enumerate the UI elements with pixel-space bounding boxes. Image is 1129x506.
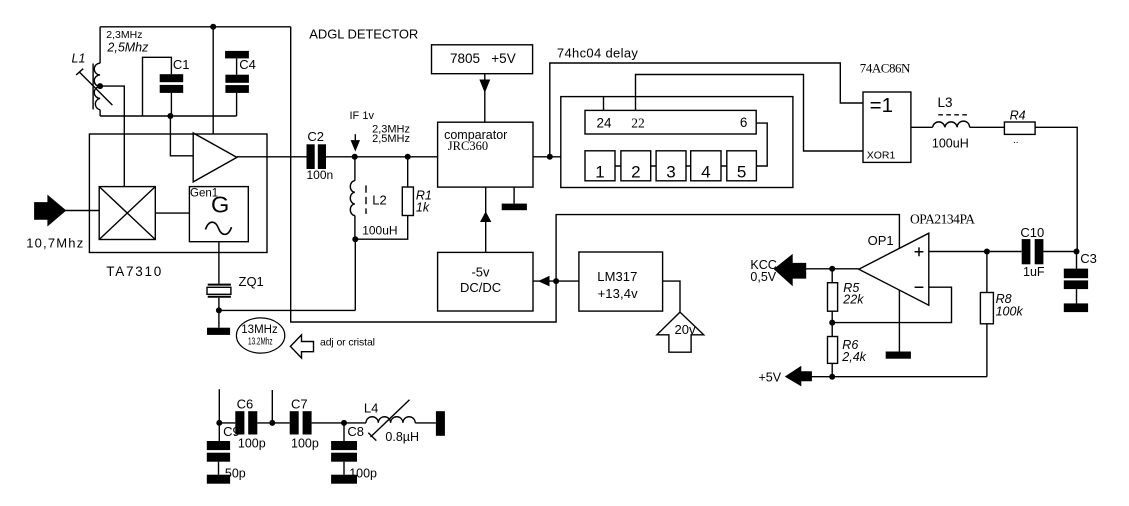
delay long box 24 22 6 (585, 110, 756, 134)
terminal bar output (436, 411, 445, 436)
arrow 20v supply (657, 312, 704, 352)
capacitor C3 (1076, 252, 1078, 269)
node ZQ1 bottom (216, 307, 222, 313)
node IF (352, 154, 358, 160)
capacitor C6 (235, 411, 244, 434)
svg-text:0,5V: 0,5V (750, 270, 776, 284)
svg-text:1: 1 (595, 163, 604, 182)
node C9 (216, 420, 222, 426)
svg-text:OPA2134PA: OPA2134PA (910, 212, 975, 227)
svg-text:JRC360: JRC360 (448, 139, 488, 153)
wire node to node (355, 156, 408, 158)
wire +5V rail (811, 376, 987, 378)
svg-text:C6: C6 (237, 397, 254, 412)
regulator 7805 box (432, 45, 533, 74)
svg-text:2,4k: 2,4k (841, 350, 866, 364)
svg-text:6: 6 (740, 115, 748, 130)
resistor R6 (831, 323, 833, 337)
svg-text:C4: C4 (239, 57, 256, 72)
node L1 tap (97, 83, 103, 89)
svg-text:L3: L3 (938, 95, 953, 110)
svg-text:7805: 7805 (450, 51, 480, 66)
svg-text:R4: R4 (1010, 108, 1026, 122)
ground at C3 (1064, 303, 1088, 312)
svg-text:100uH: 100uH (932, 137, 969, 151)
IC U1 TA7310 box (89, 134, 267, 253)
inductor L3 (933, 121, 970, 127)
arrow +5V supply (786, 367, 811, 385)
delay stage box 4 (691, 151, 721, 181)
wire LM317 to DC/DC with arrow (533, 280, 579, 282)
inductor L4 (366, 417, 415, 423)
wire comparator output (533, 156, 561, 158)
wire stage5 to pin6 (756, 123, 767, 166)
wire comparator to -5v supply with arrow (485, 187, 487, 252)
capacitor C2 (307, 144, 315, 169)
node plus input (984, 249, 990, 255)
arrow adj pointer (290, 335, 313, 358)
op-amp OP1 triangle (859, 233, 929, 305)
wire L1 bottom net (100, 110, 237, 116)
wire C6 to C7 (257, 422, 289, 424)
svg-text:2: 2 (631, 163, 640, 182)
svg-text:+5V: +5V (491, 51, 515, 66)
capacitor C10 (1022, 239, 1031, 264)
svg-text:DC/DC: DC/DC (460, 280, 501, 295)
svg-text:adj or cristal: adj or cristal (320, 336, 375, 348)
svg-text:22k: 22k (842, 293, 864, 307)
svg-text:24: 24 (597, 116, 613, 131)
svg-text:2,5MHz: 2,5MHz (372, 133, 410, 145)
wire C9 to C6 (219, 422, 235, 424)
mixer X1 (99, 187, 155, 240)
delay block outer box (561, 97, 793, 188)
svg-text:2,5Mhz: 2,5Mhz (106, 41, 149, 55)
wire long box to XOR lower input (636, 75, 864, 152)
comparator U2 JRC360 box (438, 122, 533, 187)
svg-text:100uH: 100uH (362, 224, 397, 238)
wire stage links (615, 165, 727, 167)
wire feedback loop rail (291, 27, 900, 352)
node supply junction (553, 278, 559, 284)
svg-text:10,7Mhz: 10,7Mhz (26, 236, 83, 251)
wire top rail (100, 26, 291, 28)
svg-text:3: 3 (666, 163, 675, 182)
wire C10 to C3 node (1043, 251, 1077, 253)
svg-text:C1: C1 (173, 57, 190, 72)
svg-text:2,3MHz: 2,3MHz (106, 29, 142, 41)
ground at OP1 (886, 352, 911, 359)
delay stage box 1 (585, 151, 615, 181)
svg-text:OP1: OP1 (868, 233, 894, 248)
wire pin 24 stub (603, 97, 605, 111)
svg-text:ZQ1: ZQ1 (239, 274, 264, 289)
wire L3 to R4 (970, 126, 1005, 128)
node C3 top (1074, 249, 1080, 255)
wire input to mixer (65, 210, 99, 212)
node C8 (341, 420, 347, 426)
wire LM317 to 20v (663, 281, 680, 312)
svg-text:4: 4 (701, 163, 710, 182)
svg-text:20v: 20v (675, 322, 696, 337)
svg-text:0.8µH: 0.8µH (385, 430, 419, 444)
capacitor C7 (290, 411, 299, 434)
input arrow 10,7Mhz (35, 196, 65, 225)
wire C2 to node (326, 156, 355, 158)
svg-text:C10: C10 (1020, 225, 1044, 240)
svg-text:-5v: -5v (471, 265, 490, 280)
node R1 top (405, 154, 411, 160)
wire C1 top loop (143, 57, 172, 116)
svg-text:C2: C2 (307, 129, 324, 144)
capacitor C8 (343, 423, 345, 441)
inductor L1 (92, 64, 94, 110)
wire C9 stub (218, 389, 220, 423)
node comparator output (547, 154, 553, 160)
ground at C8 (331, 475, 357, 484)
wire L4 to terminal (415, 422, 436, 424)
svg-text:C3: C3 (1080, 251, 1097, 266)
wire amp input (170, 116, 193, 156)
regulator LM317 box (579, 252, 663, 311)
svg-text:100n: 100n (307, 168, 334, 182)
svg-text:IF 1v: IF 1v (350, 110, 375, 122)
svg-text:ADGL DETECTOR: ADGL DETECTOR (309, 27, 418, 42)
amplifier A1 triangle (193, 133, 237, 182)
ground at C9 (207, 475, 230, 484)
svg-text:L2: L2 (372, 192, 386, 207)
wire L1 tap to mixer (100, 86, 124, 187)
wire R4 down to C10 node (1035, 127, 1077, 251)
wire OP1 output to KCC (806, 268, 859, 270)
node OP1 output (829, 266, 835, 272)
wire C7 to L4 (312, 422, 366, 424)
gate XOR1 74AC86N box (863, 92, 911, 162)
svg-text:13MHz: 13MHz (241, 324, 278, 336)
svg-text:L1: L1 (72, 52, 86, 66)
svg-text:G: G (211, 192, 229, 218)
wire node to comparator (408, 156, 438, 158)
svg-text:LM317: LM317 (597, 269, 637, 284)
arrow KCC output (775, 255, 806, 284)
capacitor C1 (160, 74, 184, 82)
wire amp output (237, 156, 307, 158)
node L2 bottom (352, 236, 358, 242)
wire Gen1 to crystal (218, 242, 220, 284)
svg-text:+13,4v: +13,4v (598, 286, 639, 301)
ground at ZQ1 (218, 310, 220, 327)
inductor L2 (354, 157, 356, 181)
svg-text:XOR1: XOR1 (867, 150, 896, 162)
ground at comparator (513, 187, 515, 204)
converter -5v DC/DC box (438, 252, 533, 311)
svg-text:100k: 100k (996, 305, 1024, 319)
node top junction (210, 24, 216, 30)
svg-text:C8: C8 (347, 424, 364, 439)
arrow IF input (354, 134, 356, 143)
svg-text:5: 5 (737, 163, 746, 182)
wire ZQ1 node to L2 bottom net (219, 309, 355, 311)
wire mixer to Gen1 (155, 212, 189, 214)
svg-text:50p: 50p (225, 466, 246, 480)
svg-text:+5V: +5V (759, 371, 782, 385)
svg-text:L4: L4 (364, 401, 378, 416)
node mid stub (269, 420, 275, 426)
delay stage box 2 (621, 151, 651, 181)
node +5V junction (829, 374, 835, 380)
svg-text:100p: 100p (291, 437, 319, 451)
wire 7805 to comparator with arrow (484, 74, 486, 123)
svg-text:74hc04 delay: 74hc04 delay (557, 46, 639, 61)
delay stage box 5 (727, 151, 757, 181)
oscillator Gen1 box (189, 187, 248, 242)
capacitor C4 (225, 51, 249, 59)
oval 13MHz note (236, 318, 284, 353)
wire L2 bottom down (354, 239, 356, 310)
svg-text:100p: 100p (349, 466, 377, 480)
svg-text:..: .. (1013, 135, 1019, 146)
wire L1 top (99, 27, 101, 63)
svg-text:1k: 1k (416, 201, 430, 215)
capacitor C9 (218, 423, 220, 441)
svg-text:74AC86N: 74AC86N (860, 60, 911, 75)
wire OP1 plus input (929, 251, 1022, 253)
svg-text:=1: =1 (870, 94, 893, 117)
wire OP1 feedback (833, 287, 952, 322)
svg-text:C7: C7 (291, 397, 308, 412)
svg-text:100p: 100p (238, 437, 266, 451)
resistor R4 (1004, 122, 1035, 134)
resistor R1 (407, 157, 409, 187)
wire XOR output (911, 126, 933, 128)
delay stage box 3 (656, 151, 686, 181)
node C1 bottom (167, 113, 173, 119)
resistor R5 (831, 269, 833, 283)
svg-text:22: 22 (631, 116, 645, 131)
svg-text:13.2Mhz: 13.2Mhz (248, 336, 273, 348)
wire node to XOR upper input (550, 63, 863, 157)
svg-text:1uF: 1uF (1023, 265, 1045, 279)
resistor R8 (986, 252, 988, 293)
wire top rail to box (212, 27, 214, 134)
crystal ZQ1 (208, 284, 231, 286)
node R5 R6 junction (829, 320, 835, 326)
